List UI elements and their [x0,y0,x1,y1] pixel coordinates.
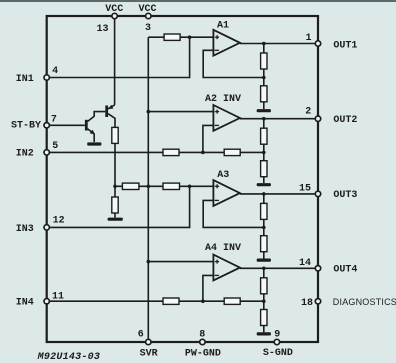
svg-text:11: 11 [52,292,64,303]
resistor A4 feedback input [224,298,240,304]
wire: feedback resistor to tap [240,300,264,302]
svg-text:DIAGNOSTICS: DIAGNOSTICS [333,297,396,307]
ground A3 divider [257,259,271,262]
wire: input resistor to A2 node [179,151,224,153]
resistor A4 feedback lower [261,310,267,326]
op-amp A3 [213,180,240,206]
node: A3 divider tap [262,226,266,230]
svg-text:8: 8 [199,329,205,340]
pin 13 VCC [112,13,117,18]
op-amp A1 [213,30,240,56]
wire: A2 output to pin 2 [240,118,316,120]
pin 8 PW-GND [200,339,205,344]
pin 11 IN4 [44,299,49,304]
svg-text:IN2: IN2 [16,149,34,160]
top window border bar [0,0,396,2]
wire: A4 divider middle [263,294,265,310]
svg-text:ST-BY: ST-BY [11,121,41,132]
svg-text:1: 1 [305,33,311,44]
svg-text:15: 15 [299,184,311,195]
wire: A2 + input from SVR [148,111,214,113]
svg-text:IN1: IN1 [16,74,34,85]
resistor standby divider lower [112,197,118,213]
wire: A1 feedback loop to divider tap [203,50,264,77]
resistor IN2 input [163,149,179,155]
ground A2 divider [257,183,271,186]
svg-text:7: 7 [51,114,57,125]
pin 9 S-GND [274,339,279,344]
resistor standby collector [112,127,118,143]
pin 18 DIAGNOSTICS [315,299,320,304]
wire: feedback resistor to tap [240,151,264,153]
wire: A4 divider top [263,268,265,278]
svg-text:OUT4: OUT4 [333,265,357,276]
svg-text:A2 INV: A2 INV [205,94,241,105]
svg-text:A4 INV: A4 INV [205,243,241,254]
svg-text:6: 6 [138,329,144,340]
IC boundary box [47,16,318,342]
wire: A3 divider middle [263,219,265,235]
node: A4 divider tap [262,299,266,303]
node: A4 inverting node [201,299,205,303]
node: A1 output junction [262,42,266,46]
wire: A2 divider to ground [263,177,265,183]
svg-text:IN4: IN4 [16,298,34,309]
pin 2 OUT2 [315,116,320,121]
wire: IN2 from pin 5 [47,151,163,153]
wire: A4 output to pin 14 [240,267,316,269]
pin 15 OUT3 [315,191,320,196]
node: A2 divider tap [262,151,266,155]
svg-text:S-GND: S-GND [263,348,293,359]
transistor Q2 (PNP, standby switch) [105,106,108,118]
resistor A1 feedback upper [261,53,267,69]
transistor Q1 (NPN, ST-BY input) [47,124,85,126]
node: A2 inverting node [201,151,205,155]
wire: resistor to ground [114,213,116,218]
svg-text:OUT1: OUT1 [333,40,357,51]
op-amp A2 [213,105,240,131]
resistor A2 feedback upper [261,128,267,144]
wire: A3 output to pin 15 [240,193,316,195]
op-amp A4 [213,255,240,281]
wire: resistor to A1 + input [180,36,214,38]
wire: A1 divider middle [263,69,265,86]
node: bias divider node [113,185,117,189]
svg-text:VCC: VCC [105,4,123,15]
svg-text:OUT2: OUT2 [333,115,357,126]
svg-text:9: 9 [274,330,280,341]
svg-text:PW-GND: PW-GND [185,349,221,360]
svg-text:VCC: VCC [138,4,156,15]
node: A1 + input junction [188,35,192,39]
pin 1 OUT1 [315,41,320,46]
node: A3 + input junction [188,185,192,189]
wire: A3 bias line from divider node to + input [115,185,122,187]
wire: IN4 from pin 11 [47,300,163,302]
wire: A2 divider middle [263,144,265,161]
node: A4 output junction [262,267,266,271]
resistor A3 feedback lower [261,236,267,252]
resistor IN4 input [163,298,179,304]
pin 4 IN1 [44,75,49,80]
wire: A2 inverting input loop [203,125,215,152]
wire: A1 divider top [263,44,265,54]
wire: A3 feedback loop to tap [203,200,264,227]
wire: between bias resistors [139,185,163,187]
wire: A1 divider to ground [263,102,265,109]
node: SVR to A2 [147,110,151,114]
wire: A4 inverting input loop [203,275,215,301]
resistor A2 feedback input [224,149,240,155]
node: A1 divider tap [262,76,266,80]
node: SVR on bias line [147,185,151,189]
resistor A3 bias right [163,183,180,189]
resistor A1 feedback lower [261,86,267,102]
node: A3 output junction [262,192,266,196]
resistor A2 feedback lower [261,161,267,177]
svg-text:13: 13 [96,24,108,35]
svg-text:5: 5 [52,141,58,152]
pin 5 IN2 [44,150,49,155]
svg-text:IN3: IN3 [16,224,34,235]
svg-text:A3: A3 [217,170,229,181]
svg-text:4: 4 [52,66,58,77]
wire: A4 divider to ground [263,326,265,333]
svg-text:OUT3: OUT3 [333,190,357,201]
resistor A3 feedback upper [261,203,267,219]
wire: A1 bias from SVR corner to resistor [148,36,164,38]
wire: A4 + input from SVR [148,261,214,263]
resistor A3 bias left [122,183,138,189]
wire: VCC rail from pin 13 down to Q2 emitter [114,16,116,105]
pin 7 ST-BY [44,123,49,128]
svg-text:SVR: SVR [140,349,158,360]
pin 14 OUT4 [315,266,320,271]
wire: IN1 from pin 4 right then up to A1 noninverting node [47,37,190,77]
ground A1 divider [257,109,271,112]
wire: IN3 from pin 12 right then up [47,186,190,227]
pin 12 IN3 [44,225,49,230]
wire: SVR rail from top corner down to pin 6 [147,37,149,342]
wire: A3 divider top [263,194,265,204]
svg-text:3: 3 [145,23,151,34]
wire: bias to A3 + input [180,185,215,187]
svg-text:A1: A1 [217,21,229,32]
wire: A2 divider top [263,119,265,129]
node: SVR to A4 [147,260,151,264]
resistor A1 bias [164,34,180,40]
wire: A3 divider to ground [263,252,265,259]
ground A4 divider [257,332,271,335]
wire: A1 output to pin 1 [240,43,316,45]
svg-text:18: 18 [301,298,313,309]
svg-text:M92U143-03: M92U143-03 [37,352,101,363]
svg-text:2: 2 [305,106,311,117]
pin 3 VCC [146,13,151,18]
pin 6 SVR [146,339,151,344]
ground Q1 emitter [87,142,101,145]
node: A2 output junction [262,117,266,121]
svg-text:12: 12 [53,216,65,227]
resistor A4 feedback upper [261,278,267,294]
wire: input resistor to A4 node [179,300,224,302]
wire: bias node to lower resistor [114,186,116,197]
ground standby divider [108,218,123,221]
wire: standby chain down to bias node [114,143,116,186]
svg-text:14: 14 [299,258,311,269]
